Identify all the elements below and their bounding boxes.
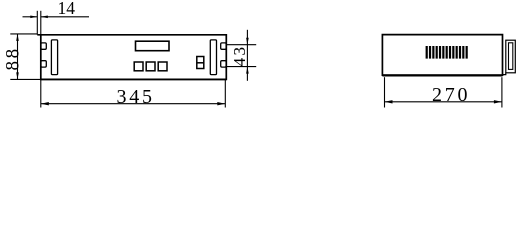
vent grille xyxy=(426,46,468,59)
faceplate outer xyxy=(506,40,516,73)
dimension 43 upper extension line xyxy=(226,44,256,46)
dimension 43 lower extension line xyxy=(226,66,256,68)
side view bottom edge thick xyxy=(382,74,502,76)
svg-text:14: 14 xyxy=(57,0,75,18)
left handle slot xyxy=(51,40,57,75)
dimension 270 line xyxy=(385,100,502,103)
display window xyxy=(136,41,170,51)
dimension 345 line xyxy=(41,102,226,105)
dimension 88 top extension line xyxy=(10,33,37,35)
front panel outline xyxy=(37,35,226,80)
left ear slot upper xyxy=(41,43,47,49)
button 2 xyxy=(146,62,155,71)
dimension 88 line xyxy=(16,34,19,80)
svg-text:270: 270 xyxy=(432,84,468,106)
dimension 14 line left segment xyxy=(23,16,38,19)
faceplate inner xyxy=(509,43,513,70)
right handle slot xyxy=(210,40,216,75)
left ear slot lower xyxy=(41,61,47,67)
svg-text:345: 345 xyxy=(116,86,152,108)
ear front face extension line xyxy=(36,11,38,35)
button 3 xyxy=(158,62,167,71)
side view box xyxy=(382,35,502,76)
dimension 270 right extension line xyxy=(501,77,503,107)
right ear slot lower xyxy=(221,61,227,67)
dimension 270 left extension line xyxy=(384,77,386,107)
dimension 88 bottom extension line xyxy=(10,78,41,80)
power switch xyxy=(197,57,204,69)
right ear slot upper xyxy=(221,43,227,49)
svg-text:88: 88 xyxy=(2,46,23,70)
dimension 43 line xyxy=(246,30,249,81)
button 1 xyxy=(134,62,143,71)
faceplate lower step xyxy=(503,73,506,75)
panel face extension line xyxy=(40,11,42,35)
dimension 14 line right segment xyxy=(41,16,89,19)
svg-text:43: 43 xyxy=(230,45,249,67)
dimension 345 right extension line xyxy=(224,79,226,107)
dimension 345 left extension line xyxy=(40,79,42,107)
front panel bottom edge xyxy=(41,78,227,80)
